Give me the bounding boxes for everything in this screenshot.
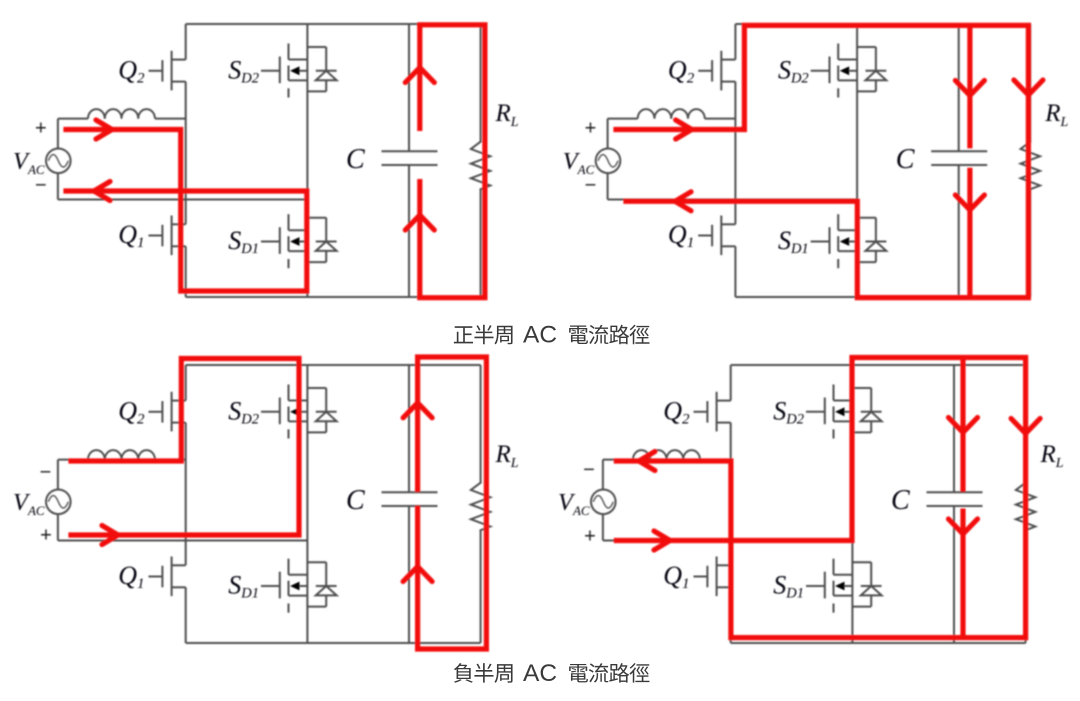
label Q2 — [118, 397, 145, 428]
svg-text:RL: RL — [1044, 100, 1068, 130]
junction red arrow cap down 2 — [949, 519, 978, 534]
AC source V_AC — [596, 149, 621, 174]
label Q2 — [118, 56, 145, 87]
wire middle leg (S_D2 / S_D1 branch) — [851, 365, 853, 643]
wire red output loop C to R_L — [420, 25, 485, 298]
wire middle leg (S_D2 / S_D1 branch) — [306, 365, 308, 643]
resistor R_L — [1021, 142, 1040, 190]
wire bottom DC rail — [735, 296, 1030, 298]
svg-text:Q2: Q2 — [118, 56, 145, 87]
svg-text:VAC: VAC — [563, 148, 595, 177]
label C — [891, 485, 910, 516]
label S_D2 — [228, 397, 259, 428]
svg-text:VAC: VAC — [13, 148, 45, 177]
label V_AC polarity top — [583, 459, 595, 481]
label R_L — [495, 100, 519, 130]
wire R_L branch lower — [1029, 189, 1031, 297]
wire left leg middle (Q2 source to Q1 drain) — [185, 82, 187, 225]
wire inductor to left-leg midpoint — [700, 459, 731, 461]
label R_L — [1044, 100, 1068, 130]
junction red arrow return left — [94, 182, 110, 201]
wire left leg middle (Q2 source to Q1 drain) — [185, 423, 187, 566]
svg-text:C: C — [346, 144, 365, 175]
junction red arrow R_L down — [1014, 80, 1043, 95]
label R_L — [1040, 441, 1064, 471]
wire left leg upper (Q2 drain) — [185, 24, 187, 60]
junction red arrow input right — [96, 120, 112, 139]
svg-text:+: + — [40, 525, 52, 547]
svg-text:Q1: Q1 — [663, 561, 689, 592]
wire R_L branch lower — [1025, 530, 1027, 643]
svg-text:SD2: SD2 — [228, 397, 259, 428]
wire V_AC return to S-leg midpoint — [603, 540, 853, 542]
label S_D1 — [228, 571, 259, 602]
wire red capacitor discharge upper — [415, 359, 420, 493]
transistor S_D2 with body diode — [806, 385, 882, 439]
wire left leg lower (Q1 source) — [185, 246, 187, 297]
wire capacitor branch upper — [408, 365, 410, 492]
label V_AC — [13, 489, 45, 518]
label C — [346, 485, 365, 516]
resistor R_L — [471, 142, 490, 190]
wire V_AC top lead — [608, 119, 638, 149]
transistor S_D1 with body diode — [261, 559, 337, 613]
wire top DC rail — [186, 364, 481, 366]
inductor L — [88, 450, 155, 460]
wire red capacitor charge upper — [960, 358, 965, 492]
transistor Q2 — [149, 392, 186, 432]
capacitor C — [382, 492, 438, 506]
wire capacitor branch lower — [408, 165, 410, 297]
transistor Q1 — [698, 216, 735, 256]
wire red capacitor discharge lower — [415, 506, 420, 649]
label Q2 — [663, 397, 690, 428]
svg-text:+: + — [585, 118, 597, 140]
transistor Q1 — [149, 557, 186, 597]
svg-text:SD1: SD1 — [228, 571, 259, 602]
label Q1 — [663, 561, 689, 592]
label S_D2 — [228, 56, 259, 87]
wire V_AC top lead — [603, 460, 633, 490]
label V_AC — [563, 148, 595, 177]
wire red capacitor discharge lower — [417, 179, 422, 298]
svg-text:C: C — [346, 485, 365, 516]
transistor Q1 — [694, 557, 731, 597]
wire R_L branch upper — [1029, 24, 1031, 142]
label V_AC polarity bottom — [584, 526, 596, 548]
junction red arrow input right — [102, 526, 118, 545]
AC source V_AC — [46, 149, 71, 174]
wire bottom DC rail — [186, 296, 481, 298]
label V_AC polarity top — [585, 118, 597, 140]
label V_AC — [13, 148, 45, 177]
svg-text:SD2: SD2 — [773, 397, 804, 428]
wire red input path through Q2 to top rail and R_L — [616, 25, 1028, 297]
AC source V_AC — [46, 490, 71, 515]
capacitor C — [927, 492, 983, 506]
svg-text:−: − — [583, 459, 595, 481]
svg-text:SD2: SD2 — [778, 56, 809, 87]
wire middle leg (S_D2 / S_D1 branch) — [306, 24, 308, 297]
wire R_L branch upper — [1025, 365, 1027, 483]
caption positive half-cycle — [454, 322, 650, 349]
wire R_L branch lower — [480, 189, 482, 297]
svg-text:AC: AC — [523, 660, 557, 687]
wire R_L branch lower — [480, 530, 482, 643]
wire V_AC bottom lead — [57, 514, 59, 540]
wire V_AC bottom lead — [57, 173, 59, 199]
svg-text:+: + — [35, 118, 47, 140]
label Q2 — [668, 56, 695, 87]
wire R_L branch upper — [480, 24, 482, 142]
transistor Q2 — [694, 392, 731, 432]
wire capacitor branch upper — [408, 24, 410, 151]
caption negative half-cycle — [454, 660, 650, 687]
transistor S_D2 with body diode — [811, 44, 887, 98]
junction red arrow cap up 2 — [405, 215, 434, 230]
svg-text:Q2: Q2 — [663, 397, 690, 428]
wire red capacitor charge upper — [967, 25, 972, 148]
label V_AC polarity bottom — [40, 525, 52, 547]
svg-text:Q1: Q1 — [668, 220, 694, 251]
label V_AC — [558, 489, 590, 518]
junction red arrow bottom input right — [654, 531, 670, 550]
junction red arrow cap down 1 — [955, 81, 984, 96]
wire capacitor branch upper — [953, 365, 955, 492]
svg-text:Q2: Q2 — [118, 397, 145, 428]
label V_AC polarity top — [35, 118, 47, 140]
wire V_AC top lead — [58, 460, 88, 490]
svg-text:+: + — [584, 526, 596, 548]
wire left leg lower (Q1 source) — [734, 246, 736, 297]
AC source V_AC — [591, 490, 616, 515]
label C — [896, 144, 915, 175]
wire V_AC return to S-leg midpoint — [608, 199, 858, 201]
label S_D2 — [778, 56, 809, 87]
wire left leg lower (Q1 source) — [185, 587, 187, 643]
wire V_AC bottom lead — [602, 514, 604, 540]
label R_L — [495, 441, 519, 471]
svg-text:AC: AC — [523, 322, 557, 349]
wire V_AC top lead — [58, 119, 88, 149]
transistor S_D2 with body diode — [261, 385, 337, 439]
resistor R_L — [1016, 483, 1035, 531]
transistor S_D1 with body diode — [811, 214, 887, 268]
svg-text:VAC: VAC — [558, 489, 590, 518]
transistor Q1 — [149, 216, 186, 256]
wire inductor to left-leg midpoint — [705, 118, 736, 120]
junction red arrow cap up 1 — [405, 68, 434, 83]
svg-text:SD2: SD2 — [228, 56, 259, 87]
svg-text:−: − — [35, 175, 47, 197]
junction red arrow input right — [676, 120, 692, 139]
wire capacitor branch lower — [953, 506, 955, 643]
label Q1 — [668, 220, 694, 251]
resistor R_L — [471, 483, 490, 531]
svg-text:Q2: Q2 — [668, 56, 695, 87]
wire left leg middle (Q2 source to Q1 drain) — [734, 82, 736, 225]
wire V_AC return to S-leg midpoint — [58, 540, 308, 542]
wire inductor to left-leg midpoint — [155, 459, 186, 461]
wire red capacitor discharge upper — [417, 25, 422, 131]
wire inductor to left-leg midpoint — [155, 118, 186, 120]
wire capacitor branch lower — [408, 506, 410, 643]
label S_D1 — [228, 226, 259, 257]
svg-text:C: C — [891, 485, 910, 516]
wire red capacitor charge lower — [967, 168, 972, 298]
transistor S_D1 with body diode — [261, 214, 337, 268]
wire left leg upper (Q2 drain) — [734, 24, 736, 60]
transistor S_D2 with body diode — [261, 44, 337, 98]
junction red arrow cap up 2 — [403, 567, 432, 582]
inductor L — [88, 109, 155, 119]
svg-text:RL: RL — [495, 100, 519, 130]
wire left leg middle (Q2 source to Q1 drain) — [730, 423, 732, 566]
label S_D2 — [773, 397, 804, 428]
junction red arrow cap down 1 — [949, 418, 978, 433]
panel: negative half-cycle, inductor charging (bottom-left) — [13, 357, 519, 649]
panel: positive half-cycle, inductor charging (top-left) — [13, 24, 519, 298]
junction red arrow return left — [675, 192, 691, 211]
wire R_L branch upper — [480, 365, 482, 483]
wire red output loop C to R_L — [418, 357, 487, 649]
capacitor C — [931, 151, 987, 165]
junction red arrow R_L down — [1011, 419, 1040, 434]
transistor Q2 — [149, 51, 186, 91]
label S_D1 — [778, 226, 809, 257]
transistor Q2 — [698, 51, 735, 91]
wire capacitor branch upper — [958, 24, 960, 151]
svg-text:SD1: SD1 — [228, 226, 259, 257]
wire red capacitor charge lower — [960, 509, 965, 638]
label Q1 — [118, 220, 144, 251]
wire left leg lower (Q1 source) — [730, 587, 732, 643]
svg-text:SD1: SD1 — [773, 571, 804, 602]
wire left leg upper (Q2 drain) — [730, 365, 732, 401]
svg-text:RL: RL — [1040, 441, 1064, 471]
label V_AC polarity bottom — [35, 175, 47, 197]
wire red input path through S_D2, top rail, Q2, L — [71, 359, 299, 536]
wire top DC rail — [731, 364, 1026, 366]
inductor L — [638, 109, 705, 119]
svg-text:Q1: Q1 — [118, 220, 144, 251]
wire red input path (V_AC + through L, Q1, S_D1 loop) — [66, 130, 307, 292]
wire V_AC bottom lead — [607, 173, 609, 199]
wire left leg upper (Q2 drain) — [185, 365, 187, 401]
junction red arrow cap up 1 — [403, 403, 432, 418]
capacitor C — [382, 151, 438, 165]
label V_AC polarity bottom — [585, 175, 597, 197]
transistor S_D1 with body diode — [806, 559, 882, 613]
junction red arrow cap down 2 — [955, 195, 984, 210]
svg-text:Q1: Q1 — [118, 561, 144, 592]
svg-text:RL: RL — [495, 441, 519, 471]
wire bottom DC rail — [731, 642, 1026, 644]
junction red arrow inductor left — [639, 452, 655, 471]
wire red input path via S_D2 to rails and back through Q1 — [616, 358, 1025, 638]
wire middle leg (S_D2 / S_D1 branch) — [856, 24, 858, 297]
wire bottom DC rail — [186, 642, 481, 644]
svg-text:C: C — [896, 144, 915, 175]
panel: negative half-cycle, energy transfer (bottom-right) — [558, 358, 1064, 644]
svg-text:VAC: VAC — [13, 489, 45, 518]
svg-text:−: − — [40, 462, 52, 484]
inductor L — [633, 450, 700, 460]
wire capacitor branch lower — [958, 165, 960, 297]
wire V_AC return to S-leg midpoint — [58, 199, 308, 201]
svg-text:−: − — [585, 175, 597, 197]
svg-text:SD1: SD1 — [778, 226, 809, 257]
wire top DC rail — [186, 23, 481, 25]
panel: positive half-cycle, energy transfer (top-right) — [563, 24, 1069, 298]
label V_AC polarity top — [40, 462, 52, 484]
wire top DC rail — [735, 23, 1030, 25]
label C — [346, 144, 365, 175]
label Q1 — [118, 561, 144, 592]
label S_D1 — [773, 571, 804, 602]
